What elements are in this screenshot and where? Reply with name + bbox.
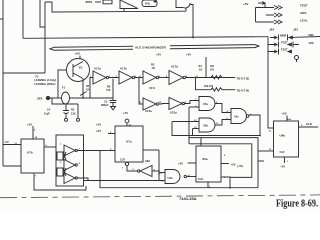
svg-text:WID: WID [309, 33, 314, 37]
svg-text:220: 220 [210, 69, 215, 72]
svg-text:U5b: U5b [203, 124, 208, 128]
svg-text:R18 220: R18 220 [204, 85, 214, 88]
svg-text:U7b: U7b [27, 151, 33, 155]
svg-text:U17d: U17d [171, 65, 178, 69]
svg-text:LEVL: LEVL [300, 19, 308, 23]
svg-text:TB 417-(3): TB 417-(3) [237, 77, 250, 81]
svg-text:R4: R4 [199, 64, 203, 68]
svg-text:470: 470 [106, 88, 111, 92]
svg-text:+5V: +5V [282, 112, 287, 116]
svg-text:Figure 8-69.: Figure 8-69. [276, 198, 318, 210]
svg-text:U8d: U8d [145, 159, 150, 163]
svg-text:10%: 10% [309, 41, 315, 45]
svg-text:R5: R5 [151, 63, 155, 67]
svg-text:680pF: 680pF [101, 103, 109, 107]
svg-text:TEST: TEST [281, 41, 288, 45]
svg-text:−5V: −5V [4, 140, 9, 144]
svg-text:R6: R6 [107, 85, 111, 89]
svg-text:7434-35A: 7434-35A [179, 196, 197, 201]
svg-text:JPR1: JPR1 [85, 0, 93, 4]
svg-text:U17a: U17a [94, 67, 101, 71]
svg-text:+5V: +5V [186, 53, 191, 57]
svg-text:NRM: NRM [280, 34, 286, 38]
svg-text:U5a: U5a [203, 102, 208, 106]
svg-text:U7a: U7a [126, 140, 132, 144]
svg-text:J33: J33 [293, 28, 298, 32]
svg-text:R5: R5 [71, 108, 75, 112]
svg-text:TEST: TEST [300, 4, 308, 8]
svg-text:J34: J34 [269, 28, 274, 32]
svg-text:U6a: U6a [202, 157, 208, 161]
svg-text:+5V: +5V [123, 111, 128, 115]
svg-text:+5V: +5V [178, 162, 183, 166]
svg-text:(−5V): (−5V) [237, 165, 243, 168]
svg-text:+5V: +5V [243, 2, 248, 6]
svg-text:+5V: +5V [96, 129, 101, 133]
svg-text:11µF: 11µF [44, 112, 50, 116]
svg-text:TB 417-(4): TB 417-(4) [237, 88, 250, 92]
svg-text:ALE: ALE [306, 122, 312, 126]
svg-text:C4: C4 [47, 108, 51, 112]
svg-text:1K: 1K [199, 68, 202, 72]
svg-text:U17b: U17b [120, 67, 127, 71]
svg-text:ALE SYNCHRONIZER: ALE SYNCHRONIZER [135, 46, 167, 50]
svg-text:R7: R7 [86, 84, 90, 88]
svg-text:+5V: +5V [96, 123, 101, 127]
svg-text:U5b: U5b [168, 176, 173, 180]
svg-text:+5V: +5V [156, 53, 161, 57]
svg-text:1K: 1K [152, 66, 155, 70]
svg-text:CLR: CLR [280, 151, 285, 154]
svg-text:C5: C5 [104, 100, 108, 104]
svg-text:+5V: +5V [27, 123, 32, 127]
svg-text:11K: 11K [71, 112, 76, 116]
svg-text:TEST: TEST [281, 48, 288, 52]
svg-text:U17c: U17c [149, 86, 156, 90]
svg-text:U12a: U12a [170, 111, 177, 115]
svg-text:CLR: CLR [198, 178, 203, 181]
svg-text:1K: 1K [86, 88, 89, 92]
svg-text:1.8432MHz (A Only): 1.8432MHz (A Only) [34, 79, 56, 82]
svg-text:−5V: −5V [280, 165, 285, 169]
svg-text:SP3: SP3 [37, 97, 43, 101]
svg-text:CLR: CLR [120, 159, 125, 162]
svg-text:ADS: ADS [300, 11, 306, 15]
svg-text:U6b: U6b [280, 134, 286, 138]
svg-text:4.9152MHz (300Hz): 4.9152MHz (300Hz) [34, 83, 56, 86]
svg-text:E4L: E4L [145, 2, 151, 6]
svg-text:U15a: U15a [145, 109, 152, 113]
svg-text:+5V: +5V [75, 52, 80, 56]
svg-text:U5c: U5c [234, 115, 239, 119]
svg-text:+5V: +5V [231, 163, 236, 167]
svg-text:E1: E1 [79, 66, 83, 70]
